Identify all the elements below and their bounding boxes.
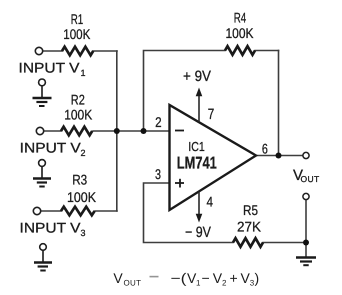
- svg-text:OUT: OUT: [301, 174, 320, 184]
- svg-text:IC1: IC1: [188, 139, 205, 154]
- svg-text:2: 2: [81, 148, 86, 158]
- svg-text:1: 1: [81, 68, 86, 78]
- svg-text:R4: R4: [234, 10, 247, 26]
- svg-text:OUT: OUT: [124, 279, 142, 288]
- svg-text:− 9V: − 9V: [185, 224, 211, 241]
- svg-text:−: −: [202, 270, 210, 286]
- svg-text:INPUT V: INPUT V: [20, 139, 82, 155]
- svg-text:3: 3: [81, 228, 86, 238]
- svg-text:1: 1: [196, 279, 201, 288]
- svg-text:100K: 100K: [67, 189, 97, 205]
- svg-text:R3: R3: [72, 172, 87, 188]
- svg-text:LM741: LM741: [177, 154, 217, 173]
- svg-text:100K: 100K: [64, 107, 93, 123]
- svg-text:+: +: [230, 270, 238, 286]
- svg-text:3: 3: [155, 166, 161, 182]
- svg-text:100K: 100K: [226, 25, 255, 41]
- svg-text:+ 9V: + 9V: [183, 68, 211, 85]
- svg-text:R5: R5: [243, 202, 258, 218]
- svg-text:6: 6: [262, 140, 268, 156]
- svg-text:4: 4: [206, 194, 213, 210]
- svg-text:INPUT V: INPUT V: [19, 60, 81, 76]
- svg-text:27K: 27K: [237, 219, 262, 235]
- svg-text:INPUT V: INPUT V: [20, 219, 82, 235]
- svg-text:7: 7: [208, 106, 215, 123]
- svg-text:R1: R1: [71, 11, 84, 27]
- svg-text:): ): [255, 270, 260, 286]
- svg-text:100K: 100K: [63, 26, 91, 42]
- svg-text:2: 2: [155, 114, 162, 130]
- svg-text:−(: −(: [171, 270, 187, 286]
- svg-text:2: 2: [222, 279, 227, 288]
- svg-text:V: V: [113, 270, 123, 286]
- svg-text:R2: R2: [71, 92, 85, 108]
